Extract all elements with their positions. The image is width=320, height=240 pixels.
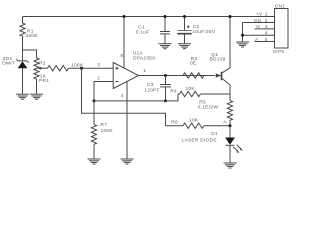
svg-text:3: 3 (265, 24, 268, 30)
ground under C1 (159, 44, 172, 49)
capacitor C1 (136, 17, 170, 44)
svg-text:4: 4 (265, 31, 268, 37)
connector CN1 SIP5 (243, 4, 289, 55)
svg-text:3: 3 (97, 62, 100, 68)
svg-text:4: 4 (121, 93, 124, 99)
svg-text:10K: 10K (186, 86, 196, 92)
wire op-amp output to Q1 base (139, 75, 216, 77)
ground under D1 (224, 163, 237, 168)
resistor R4 (170, 86, 230, 97)
svg-text:N: N (256, 24, 260, 30)
svg-text:D1: D1 (211, 131, 218, 137)
ground under R7 (88, 159, 101, 164)
wire +V power rail (23, 16, 275, 18)
resistor R7 (91, 101, 113, 159)
resistor R5 (198, 100, 233, 126)
svg-text:10K: 10K (189, 118, 199, 124)
svg-text:CN1: CN1 (275, 4, 285, 10)
svg-text:GD: GD (254, 18, 262, 24)
svg-text:SIP5: SIP5 (273, 49, 285, 55)
svg-text:LASER DIODE: LASER DIODE (182, 137, 217, 143)
svg-text:U1A: U1A (133, 51, 144, 57)
capacitor C3 (144, 76, 171, 101)
pin 3 N (255, 28, 275, 30)
svg-text:A: A (255, 37, 259, 43)
svg-text:2: 2 (97, 75, 100, 81)
svg-text:0E: 0E (190, 61, 196, 67)
svg-text:5: 5 (265, 37, 268, 43)
transistor Q1 BD139 (210, 17, 231, 101)
svg-text:A: A (223, 120, 227, 126)
laser diode D1 (182, 126, 243, 163)
svg-text:+V: +V (256, 12, 263, 18)
svg-text:0.1E/2W: 0.1E/2W (198, 104, 219, 110)
ground under CN1 (236, 42, 249, 47)
wire R1 node to R2 top (23, 50, 37, 58)
wire op-amp pin2 (94, 82, 113, 101)
svg-text:R7: R7 (101, 122, 108, 128)
zener diode ZD1 (2, 50, 29, 94)
svg-text:120PF: 120PF (144, 88, 160, 94)
ground under C2 (178, 44, 191, 49)
svg-text:330E: 330E (26, 33, 38, 39)
wire feedback line (-input node) (94, 94, 180, 101)
svg-text:BD139: BD139 (210, 57, 226, 63)
pin 5 A (255, 41, 275, 43)
wire op-amp pin4 to ground (126, 81, 128, 159)
svg-text:100K: 100K (101, 128, 114, 134)
svg-text:1: 1 (265, 12, 268, 18)
svg-text:OMIT: OMIT (2, 61, 15, 67)
svg-text:OPA2350: OPA2350 (133, 56, 155, 62)
svg-text:0.1uF: 0.1uF (136, 30, 150, 36)
svg-text:R4: R4 (170, 89, 177, 95)
svg-text:PR1: PR1 (39, 78, 49, 84)
svg-text:R6: R6 (171, 119, 178, 125)
resistor 100K (to op-amp +input) (48, 63, 114, 71)
node A (229, 124, 232, 127)
ground under op-amp pin4 (121, 159, 134, 164)
trimmer R2 1K PR1 (34, 58, 49, 94)
ground under R2 (30, 94, 43, 99)
resistor R1 (20, 17, 38, 51)
wire CN1 ground (242, 23, 244, 43)
svg-text:10uF/25V: 10uF/25V (192, 29, 216, 35)
node junction pin3 (80, 67, 83, 70)
pin 4 (243, 34, 275, 36)
resistor R6 (166, 118, 231, 129)
ground under ZD1 (16, 94, 29, 99)
pin 2 GD (243, 22, 275, 24)
wire op-amp pin8 to rail (123, 17, 125, 69)
svg-text:R2: R2 (39, 60, 46, 66)
svg-text:2: 2 (265, 18, 268, 24)
wire +input node down (82, 68, 166, 126)
svg-text:8: 8 (120, 53, 123, 59)
svg-text:1: 1 (143, 68, 146, 74)
svg-text:C3: C3 (147, 82, 154, 88)
capacitor C2 (polarized) (177, 17, 216, 44)
resistor R3 (183, 56, 204, 78)
op-amp U1A OPA2350 (97, 51, 155, 100)
